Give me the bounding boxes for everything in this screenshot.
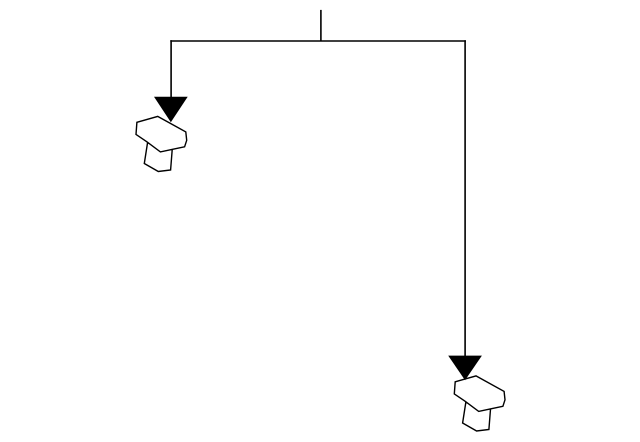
- node part icon right (stem): [463, 403, 491, 432]
- wire top stub: [320, 10, 322, 41]
- wire left branch: [170, 40, 172, 100]
- wire horizontal bus: [170, 40, 466, 42]
- arrowhead right: [448, 356, 482, 381]
- node part icon right (body): [454, 376, 505, 412]
- arrowhead left: [154, 97, 188, 123]
- node part icon left (body): [136, 116, 187, 151]
- node part icon left (stem): [144, 143, 172, 172]
- wire right branch: [464, 40, 466, 358]
